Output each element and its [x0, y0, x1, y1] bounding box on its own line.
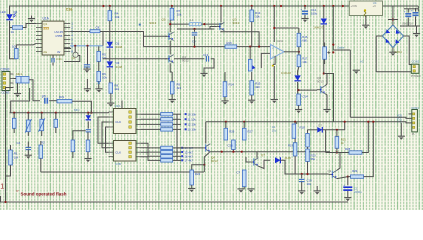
diode D6 1N4148 — [294, 75, 300, 80]
wire C19 to ground — [301, 182, 303, 191]
wire RN sum vertical — [176, 114, 178, 160]
wire Q4 emitter to C13 — [174, 58, 204, 60]
wire bridge top tap — [388, 19, 398, 21]
wire C1 down — [13, 128, 15, 133]
wire Q2 loop bottom — [64, 56, 80, 62]
wire U3A pin4 to U3B pin3 — [106, 127, 109, 152]
wire node to R29 — [348, 176, 351, 178]
junction bus R26 — [225, 121, 227, 123]
svg-text:17 4k7: 17 4k7 — [185, 159, 194, 163]
diode D5 zener — [86, 115, 91, 120]
svg-text:R29: R29 — [352, 169, 358, 173]
svg-text:Q5: Q5 — [162, 18, 166, 22]
svg-text:R26: R26 — [229, 130, 235, 134]
svg-text:1k2: 1k2 — [114, 87, 119, 91]
capacitor C14 4u7 — [297, 94, 301, 105]
sheet border left corner tick — [0, 196, 2, 202]
wire R19 to Q9 base line — [294, 156, 296, 174]
wire C2 down — [55, 127, 57, 133]
wire C4 top stub — [27, 142, 29, 148]
junction rail drop 333 — [332, 5, 334, 7]
wire R28 to bus vertical — [362, 122, 368, 153]
microphone MK1 body — [16, 77, 29, 84]
IC U3A counter body — [114, 109, 137, 134]
U3A left pin stubs — [109, 112, 114, 127]
ground under C18 — [344, 198, 351, 202]
wire Q4 base — [103, 58, 167, 60]
svg-text:Q2: Q2 — [72, 56, 76, 60]
transistor Q9 8050 — [329, 170, 337, 178]
pin pad on R6 ground stem — [98, 82, 100, 84]
ground under R9 — [169, 100, 176, 104]
capacitor C7 — [84, 65, 90, 67]
resistor R16 680 — [297, 33, 301, 46]
wire RN2 to sum node — [173, 118, 181, 120]
ground mid 274 — [271, 100, 278, 104]
junction Q3 emitter node — [258, 46, 260, 48]
connector CON3 body — [2, 72, 10, 91]
svg-text:R31: R31 — [59, 95, 65, 99]
wire C10 to mixer bus — [232, 150, 234, 152]
junction rail C12 — [304, 5, 306, 7]
svg-text:10 10k: 10 10k — [188, 112, 197, 116]
wire C4 to ground — [27, 150, 29, 155]
resistor R28 — [349, 151, 362, 154]
svg-text:12 10k: 12 10k — [188, 123, 197, 127]
ground under R23 — [84, 159, 91, 163]
resistor RN3 10k — [161, 123, 173, 126]
wire C12 to ground — [304, 15, 306, 18]
svg-text:13 10k: 13 10k — [188, 128, 197, 132]
op-amp U2A — [271, 45, 285, 60]
svg-text:Cable: Cable — [337, 45, 345, 49]
diode D7 1N4148 — [317, 127, 322, 133]
wire VCC rail left of U4 — [9, 5, 349, 7]
wire RV2 down — [41, 131, 43, 136]
svg-text:dis: dis — [43, 50, 47, 54]
ground bottom mid B — [247, 189, 254, 193]
transistor Q8 9013 — [317, 86, 325, 94]
wire rail corner down right — [417, 6, 419, 12]
wire bus to R19 — [294, 122, 296, 143]
svg-text:C13: C13 — [203, 53, 209, 57]
diode D10 1N4148 — [275, 157, 280, 163]
wire opamp plus input line — [144, 46, 226, 48]
wire bottom bus — [41, 171, 204, 173]
ground under C13 — [200, 73, 207, 77]
junction D6 Q8 base — [298, 89, 300, 91]
ground under U4 — [362, 25, 369, 29]
IC U1 555 timer body — [42, 21, 64, 55]
junction Q6 emitter node — [203, 164, 205, 166]
wire R21 top stub — [336, 130, 338, 137]
junction rail Q3 — [220, 5, 222, 7]
svg-text:9013: 9013 — [150, 21, 157, 25]
wire R7 to Q5 — [169, 20, 171, 32]
svg-text:C16: C16 — [66, 8, 73, 12]
pin pad net marker — [139, 24, 141, 26]
transistor Q4 9012 — [165, 55, 173, 63]
wire R30 bottom — [243, 170, 245, 187]
wire feedback run — [274, 28, 299, 42]
capacitor C11 — [52, 58, 54, 63]
capacitor C2 10u — [54, 119, 58, 127]
svg-text:9013: 9013 — [211, 159, 218, 163]
resistor R4 10k — [108, 11, 112, 21]
svg-text:4148: 4148 — [116, 45, 123, 49]
svg-text:4k3: 4k3 — [255, 85, 260, 89]
connector CON2 body — [411, 64, 419, 73]
wire opamp minus input — [261, 53, 271, 68]
junction rail 342 — [342, 5, 344, 7]
pin pad RN3 — [185, 123, 187, 125]
wire D2 to D3 — [109, 48, 111, 61]
svg-text:C8: C8 — [96, 25, 100, 29]
wire to R20 — [307, 130, 309, 134]
resistor R17 10k — [297, 55, 301, 67]
svg-text:C4: C4 — [17, 141, 21, 145]
wire Q9 collector up — [337, 153, 340, 171]
svg-text:4148: 4148 — [285, 156, 292, 160]
svg-text:9013: 9013 — [317, 79, 324, 83]
wire collector node to mid bus — [324, 74, 334, 122]
ground under MK1 — [14, 94, 21, 98]
wire R2b to bottom bus — [40, 158, 42, 172]
wire RN6 to sum node — [173, 151, 181, 153]
U4 internal reference symbol — [364, 9, 366, 17]
wire bus to C1 — [13, 113, 15, 119]
resistor RN6 10k — [161, 150, 173, 153]
wire bus to D5 — [87, 113, 89, 115]
wire C7 to ground — [86, 67, 88, 69]
wire RN8 to sum node — [173, 159, 181, 161]
wire rail to R4 — [109, 6, 111, 11]
wire Q8 collector up — [324, 74, 327, 86]
junction rail D8 — [323, 5, 325, 7]
svg-text:Q7: Q7 — [261, 153, 265, 157]
wire C5 to R31 — [49, 100, 57, 102]
wire D5 to C3 — [87, 121, 89, 128]
ground bottom mid A — [237, 189, 244, 193]
svg-text:L1: L1 — [190, 18, 194, 22]
svg-text:680: 680 — [302, 39, 307, 43]
svg-text:PL: PL — [412, 132, 416, 136]
resistor RN1 10k — [161, 113, 173, 116]
trimmer RV1 — [25, 119, 31, 133]
svg-text:2200u: 2200u — [354, 190, 362, 194]
wire MK1 to C5 — [29, 80, 40, 101]
svg-text:+: + — [343, 183, 345, 187]
wire Q7 emitter to D10 — [258, 160, 270, 168]
wire D6 to C14 — [297, 82, 299, 94]
ground under Q8 — [323, 110, 330, 114]
wire Q7 base stub — [246, 157, 250, 162]
U3B output stubs — [136, 143, 141, 157]
junction bus C2 — [55, 112, 57, 114]
resistor R2b 47k — [39, 145, 43, 158]
capacitor C12 100u electrolytic — [300, 7, 308, 15]
transistor Q6 9013 — [202, 144, 210, 152]
svg-text:R18: R18 — [300, 126, 306, 130]
wire C18 to ground — [347, 191, 349, 197]
junction 344 bus — [344, 121, 346, 123]
junction opamp input C6 — [249, 46, 251, 48]
wire C13 to ground — [204, 59, 214, 74]
svg-text:C14: C14 — [302, 95, 308, 99]
junction rail R4 — [109, 5, 111, 7]
wire RN1 to sum node — [173, 113, 181, 115]
capacitor C4 — [26, 147, 32, 149]
ground near Q9 — [314, 191, 321, 195]
resistor R20b 56k — [306, 149, 310, 162]
bridge rectifier D9 CW04 — [382, 25, 403, 48]
wire to C6 — [249, 47, 251, 60]
wire RN5 to sum node — [173, 147, 181, 149]
ground under C4 — [25, 155, 32, 159]
wire R3 top to U1 pin 6 — [16, 44, 36, 49]
wire C16 top — [407, 9, 409, 13]
wire blue net U1 right side — [70, 45, 103, 47]
svg-text:10k: 10k — [255, 14, 260, 18]
wire Q3 base from coupling — [210, 27, 216, 30]
svg-text:100u: 100u — [311, 12, 318, 16]
svg-text:SB60016: SB60016 — [402, 22, 413, 26]
wire node to bottom bus — [203, 165, 205, 172]
junction Q9 emitter — [347, 176, 349, 178]
junction output R16 R17 — [298, 51, 300, 53]
wire C15 top stub — [324, 43, 326, 47]
svg-text:thr: thr — [57, 50, 61, 54]
junction blue net Q2 — [74, 45, 76, 47]
wire U4 ground pin — [365, 16, 367, 26]
ground under R14 — [221, 101, 228, 105]
resistor R22 10k — [71, 140, 75, 152]
junction R21 scr bus — [336, 151, 338, 153]
resistor R20 56k — [306, 134, 310, 148]
svg-text:+: + — [272, 46, 274, 50]
resistor R30 — [242, 170, 246, 187]
svg-text:U3B: U3B — [115, 162, 121, 166]
wire scr bus left — [326, 152, 349, 154]
wire caps top tie — [404, 8, 418, 10]
junction rail R13 — [251, 5, 253, 7]
pin pad RN2 — [185, 118, 187, 120]
inductor L1 — [189, 23, 202, 26]
wire CON1 pin1 stub — [409, 113, 412, 115]
wire C17 bottom — [415, 16, 417, 26]
transistor Q2 small circle — [73, 52, 78, 57]
wire U3B out 1 to RN — [141, 143, 161, 148]
capacitor C15 100u electrolytic — [323, 47, 327, 59]
junction cable line A — [332, 44, 334, 46]
wire CON3 ground return down left side — [6, 88, 14, 203]
wire R5 to R6 — [98, 61, 100, 71]
junction bus RV1 — [27, 112, 29, 114]
wire R21 bottom stub — [336, 148, 338, 152]
wire right ground tie — [400, 25, 420, 27]
wire down to R14 — [224, 72, 226, 82]
wire bridge right to CON2 pin1 — [404, 36, 412, 65]
svg-text:R25: R25 — [227, 41, 233, 45]
wire C16 bottom — [407, 17, 409, 26]
wire R2 right to U1 pin 1 — [23, 24, 36, 28]
U1 left pin stubs — [36, 24, 42, 52]
svg-text:CLK: CLK — [115, 151, 121, 155]
wire C3 to R23 — [87, 132, 89, 140]
wire C8 net to riser — [100, 32, 144, 47]
junction C10 bus — [232, 151, 234, 153]
wire D7 run up to bus — [344, 122, 346, 130]
wire down to R15 — [251, 72, 253, 81]
transistor Q5 9013 — [165, 32, 173, 40]
svg-text:1N4148: 1N4148 — [281, 71, 291, 75]
junction R7 L1 — [169, 23, 171, 25]
ground under C7 — [83, 69, 90, 73]
wire bus to RV2 — [41, 113, 43, 120]
junction bridge top — [392, 18, 394, 20]
wire stage coupling top — [177, 28, 214, 30]
resistor R31 10k — [57, 100, 72, 103]
wire R1 top stub — [10, 145, 12, 150]
wire U3B out 2 to RN — [141, 148, 161, 152]
junction base line C19 — [301, 173, 303, 175]
resistor R18 10k — [292, 124, 296, 138]
wire U3A pin2 to U3B pin1 — [98, 117, 109, 143]
C6 polarity arrow — [252, 65, 255, 69]
wire bus into U3A pin1 — [108, 111, 110, 114]
wire Q4 emitter down — [170, 63, 172, 72]
pin pad RN6 — [181, 151, 183, 153]
ground right edge — [413, 34, 420, 38]
diode D2 1N4148 — [107, 42, 113, 47]
wire U3A out 3 to RN — [141, 123, 161, 125]
svg-text:9013: 9013 — [233, 21, 240, 25]
junction R31 audio bus — [90, 112, 92, 114]
resistor R7 10k — [170, 8, 174, 20]
wire rail to D8 — [323, 6, 325, 18]
wire R30 to ground — [243, 187, 245, 189]
junction D8 Q8 collector — [323, 72, 325, 74]
wire bridge left to CON2 pin2 — [376, 36, 411, 72]
CON1 pin pads — [413, 113, 415, 128]
pin pad RN1 — [185, 113, 187, 115]
wire U3A out 2 to RN — [141, 118, 161, 120]
svg-text:R2: R2 — [41, 141, 45, 145]
resistor RN2 10k — [161, 118, 173, 121]
wire Q7 collector to bus — [256, 152, 258, 158]
ground under R24 — [188, 189, 195, 193]
wire R1 bottom to left rail — [6, 165, 11, 176]
junction 368 bus — [367, 121, 369, 123]
wire CON3 to MK1 — [14, 78, 17, 80]
wire rail to C12 — [304, 6, 306, 9]
IC U4 voltage regulator body — [349, 1, 382, 16]
junction feedback — [273, 27, 275, 29]
wire bus to R27 — [243, 122, 245, 129]
svg-text:MIC: MIC — [74, 108, 80, 112]
capacitor C13 104 — [206, 56, 208, 62]
junction C9 bottom — [193, 46, 195, 48]
wire D7 right run — [322, 129, 345, 131]
wire Q3 emitter to node — [221, 31, 259, 47]
svg-text:+: + — [404, 10, 406, 14]
resistor RN8 10k — [161, 159, 173, 162]
wire GND net to ground — [400, 123, 402, 136]
CON3 pin pads — [3, 73, 6, 89]
wire to Q8 base — [299, 89, 317, 91]
resistor R14 4k7 — [223, 82, 227, 97]
resistor RN4 10k — [161, 128, 173, 131]
resistor R1 1M — [9, 150, 13, 165]
wire R16 to R17 — [298, 47, 300, 55]
wire D8 cathode down — [323, 25, 325, 74]
wire bridge bottom to ground — [392, 48, 394, 53]
wire Q5 emitter to Q4 collector — [169, 41, 171, 55]
wire C9 to opamp input line — [194, 36, 196, 47]
resistor R6 10k — [97, 71, 101, 81]
wire Q3 collector stub — [220, 18, 222, 22]
svg-text:AC: AC — [360, 59, 364, 63]
wire U3B out 4 to RN — [141, 157, 161, 161]
wire cable line down to VCC run — [349, 50, 351, 117]
svg-text:C11: C11 — [57, 57, 63, 61]
resistor R21 1k — [335, 137, 339, 149]
capacitor C9 104 — [192, 33, 198, 35]
pin pad RN4 — [185, 128, 187, 130]
wire opamp output — [284, 51, 299, 53]
wire U3A VCC stub — [121, 101, 123, 109]
svg-text:+: + — [300, 7, 302, 11]
svg-text:1k: 1k — [11, 30, 15, 34]
wire bus to R26 — [225, 122, 227, 129]
wire U3A out 4 to RN — [141, 128, 161, 130]
svg-text:CON3: CON3 — [1, 67, 10, 71]
wire Q2 loop top — [64, 48, 71, 50]
wire node A to R2 left — [10, 27, 13, 29]
IC U3B counter body — [114, 141, 137, 162]
wire RN7 to sum node — [173, 155, 181, 157]
svg-text:U2A: U2A — [277, 39, 283, 43]
wire down to R9 — [171, 72, 173, 82]
svg-text:R28: R28 — [345, 147, 351, 151]
svg-text:C10: C10 — [228, 144, 234, 148]
ground under C12 — [301, 19, 308, 23]
ground near U1 top-left — [28, 19, 35, 23]
sheet border bottom line — [0, 201, 348, 203]
resistor RN5 10k — [161, 146, 173, 149]
svg-text:D7: D7 — [318, 123, 322, 127]
resistor R24 4k7 — [190, 170, 194, 185]
wire L1 to Q3 collector — [202, 23, 222, 24]
svg-text:10k: 10k — [102, 76, 107, 80]
wire RN4 to sum node — [173, 128, 181, 130]
capacitor C16 electrolytic — [404, 10, 412, 18]
svg-text:D4: D4 — [14, 10, 18, 14]
wire R20a to R20b — [307, 147, 309, 149]
svg-text:4k3: 4k3 — [177, 86, 182, 90]
wire R29 to bus vertical — [364, 122, 374, 177]
CON2 pin pads — [413, 66, 415, 73]
U3B left pin stubs — [109, 143, 114, 157]
resistor R13 10k — [250, 10, 254, 22]
sheet border zone marker 1 — [0, 180, 4, 190]
svg-text:10u: 10u — [307, 182, 312, 186]
pin pad opamp power — [272, 65, 274, 67]
junction rail feed 274 — [273, 5, 275, 7]
wire R16 top stub — [298, 28, 300, 33]
ground under bridge — [389, 52, 396, 56]
wire C8 right — [100, 31, 103, 33]
